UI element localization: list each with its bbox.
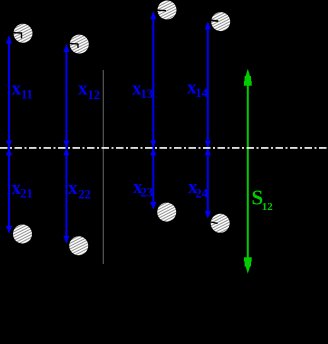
svg-text:21: 21	[20, 187, 33, 201]
svg-text:12: 12	[88, 88, 101, 102]
svg-text:14: 14	[195, 86, 208, 100]
svg-text:24: 24	[195, 187, 208, 201]
svg-text:23: 23	[141, 186, 154, 200]
svg-text:12: 12	[262, 201, 274, 213]
svg-text:11: 11	[21, 88, 33, 102]
svg-text:13: 13	[141, 87, 154, 101]
svg-text:x: x	[12, 78, 22, 99]
svg-text:22: 22	[78, 187, 91, 201]
svg-text:x: x	[78, 78, 88, 99]
svg-text:x: x	[68, 178, 78, 199]
